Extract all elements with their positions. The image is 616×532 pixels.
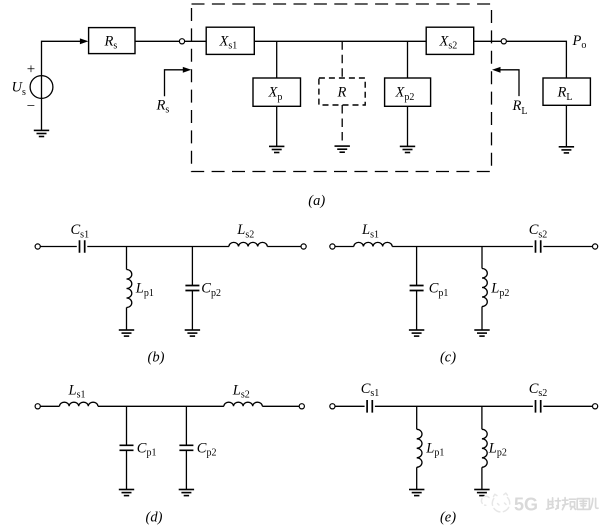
terminal left b [35,244,40,249]
reactance Xp box [253,78,301,106]
watermark char quan [577,499,589,510]
wire Xp2 to ground [407,106,409,146]
reactance Xp2 box [385,78,431,106]
ground under Xp2 [400,146,415,152]
wire Lp1 tap [126,247,128,270]
wire Rs to node [135,40,179,42]
RL pointer arrowhead [492,67,501,73]
wire node to Xs1 [185,40,207,42]
svg-text:(a): (a) [308,193,325,209]
capacitor Cp1 [410,286,424,291]
wire Cp2 tap [185,406,187,445]
ground under Lp1 e [409,490,424,496]
wire Lp1 to ground [416,467,418,489]
wire Lp2 tap [481,247,483,269]
wire [543,405,592,407]
terminal left e [330,404,335,409]
wire [335,405,365,407]
terminal left d [35,404,40,409]
wire Cp2 to ground [185,450,187,489]
terminal right b [301,244,306,249]
node input [179,39,184,44]
watermark char she [547,498,561,509]
ground under Cp2 [185,330,200,336]
terminal right c [593,244,598,249]
svg-text:R: R [337,85,347,101]
wire Cp2 to ground [191,291,193,331]
wire Cp1 tap [126,406,128,445]
wire [335,246,354,248]
wire [262,405,299,407]
wire source to Rs [42,41,82,130]
ground under Lp2 e [474,490,489,496]
inductor Lp2 [482,269,487,307]
wire [40,405,59,407]
wire [375,405,533,407]
capacitor Cs1 [367,400,372,413]
ground under Cp1 d [119,490,134,496]
reactance Xs2 box [426,27,474,54]
wire tap to Xp [276,41,278,78]
source Us circle [30,76,53,99]
ground under Lp2 [474,330,489,336]
ground under RL [559,147,574,153]
Rs pointer arrowhead [183,67,192,73]
wire [267,246,301,248]
inductor Ls1 [60,402,98,406]
terminal right e [593,404,598,409]
wire [98,405,224,407]
capacitor Cp2 [179,445,193,450]
resistor Rs box [89,28,135,54]
terminal right d [299,404,304,409]
ground under Lp1 [119,330,134,336]
wire Xp to ground [276,106,278,146]
wire Lp2 tap [481,406,483,429]
wire [392,246,533,248]
wire [87,246,229,248]
wire tap to Xp2 [407,41,409,78]
terminal left c [330,244,335,249]
capacitor Cs1 [80,240,85,253]
ground under Cp1 [409,330,424,336]
wire Lp2 to ground [481,467,483,489]
svg-text:5G: 5G [514,495,538,515]
svg-text:(e): (e) [440,510,456,526]
ground under Xp [269,146,284,152]
wire [40,246,77,248]
wire Cp1 to ground [126,450,128,489]
svg-text:(c): (c) [440,350,456,366]
capacitor Cs2 [536,240,541,253]
resistor R dashed box [319,78,365,105]
wire Lp1 tap [416,406,418,429]
capacitor Cp2 [185,286,199,291]
watermark char pin [562,498,575,510]
wire Lp2 to ground [481,307,483,331]
inductor Lp1 e [417,429,422,467]
watermark char er [590,498,598,509]
ground under R [335,146,350,152]
inductor Lp2 e [482,429,487,467]
wire RL to ground [565,105,567,147]
dashed wire R to ground [341,105,343,146]
ground under source [34,130,49,136]
wire Cp1 tap [416,247,418,286]
RL pointer wire [500,70,519,96]
wire Xs2 to node [474,40,502,42]
Rs pointer wire [165,70,184,96]
inductor Lp1 [127,270,132,308]
wire Cp1 to ground [416,291,418,331]
node output [501,39,506,44]
arrow into Rs [80,38,89,44]
ground under Cp2 d [179,490,194,496]
dashed wire tap to R [341,41,343,78]
reactance Xs1 box [206,27,254,54]
svg-text:(b): (b) [148,350,165,366]
resistor RL box [543,78,590,105]
dashed network box [192,4,492,172]
svg-text:(d): (d) [146,510,163,526]
capacitor Cs2 [536,400,541,413]
wire Cp2 tap [191,247,193,286]
wire Lp1 to ground [126,308,128,331]
capacitor Cp1 [120,445,134,450]
inductor Ls1 [354,242,392,246]
inductor Ls2 [224,402,262,406]
wire node to RL [506,41,566,78]
svg-text:+: + [27,62,35,78]
main wire Xs1 to Xs2 [254,40,426,42]
svg-text:−: − [27,99,35,115]
wire [543,246,592,248]
inductor Ls2 [229,242,267,246]
watermark logo doodle [481,493,509,512]
